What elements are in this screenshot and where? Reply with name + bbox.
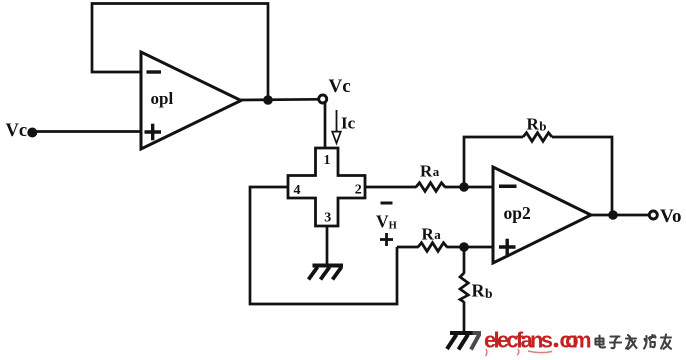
wire op1 feedback loop bbox=[92, 4, 268, 101]
watermark elecfans.com bbox=[484, 328, 592, 353]
svg-text:3: 3 bbox=[324, 211, 331, 226]
ground bottom right bbox=[450, 331, 473, 335]
wire pin3 to ground bbox=[326, 226, 329, 266]
svg-text:com: com bbox=[560, 328, 592, 353]
resistor Rb bottom (vertical) bbox=[460, 273, 468, 302]
svg-text:opl: opl bbox=[151, 89, 174, 108]
wire pin2 to Ra bbox=[365, 186, 417, 189]
svg-text:Vc: Vc bbox=[329, 76, 351, 97]
svg-text:Vc: Vc bbox=[6, 121, 28, 141]
resistor Ra top bbox=[416, 183, 445, 192]
wire Vc input to op1 + bbox=[32, 130, 141, 133]
watermark chinese: zi bbox=[610, 337, 621, 349]
svg-text:Vo: Vo bbox=[660, 206, 681, 227]
node junction plus row bbox=[459, 242, 469, 252]
watermark red swoosh bbox=[486, 349, 553, 356]
svg-text:Ra: Ra bbox=[422, 225, 442, 244]
wire Rb1 feedback loop bbox=[464, 137, 523, 187]
watermark chinese: shao bbox=[644, 335, 656, 349]
node Vo terminal bbox=[649, 211, 657, 219]
svg-text:Ra: Ra bbox=[420, 161, 440, 180]
svg-text:1: 1 bbox=[324, 153, 331, 168]
wire plus node down to Rb2 bbox=[463, 247, 466, 274]
node junction op1 output bbox=[263, 95, 273, 105]
ground under pin3 bbox=[313, 264, 344, 268]
svg-text:4: 4 bbox=[294, 183, 301, 198]
op-amp op2 bbox=[493, 167, 591, 263]
watermark chinese: fa bbox=[626, 335, 637, 349]
current arrow Ic bbox=[336, 110, 338, 132]
resistor Ra bottom bbox=[418, 243, 447, 252]
wire Ra2 to op2 plus input bbox=[447, 246, 494, 249]
node junction minus row bbox=[459, 182, 469, 192]
wire Ra to op2 minus input bbox=[445, 186, 494, 189]
watermark chinese: dian bbox=[596, 336, 606, 348]
svg-text:Ic: Ic bbox=[341, 114, 356, 133]
label VH with polarity bbox=[381, 202, 393, 205]
op-amp op1 bbox=[141, 52, 241, 149]
wire op2 output to Vo node bbox=[590, 214, 650, 217]
wire pin4 loop to plus row bbox=[250, 187, 397, 304]
wire Rb2 to ground bbox=[463, 302, 466, 334]
watermark chinese: you bbox=[661, 335, 671, 349]
resistor Rb top bbox=[523, 133, 552, 142]
wire Vc node down to hall pin1 bbox=[324, 103, 327, 150]
node Vc terminal bbox=[319, 95, 327, 103]
svg-text:2: 2 bbox=[355, 182, 362, 197]
node junction op2 output bbox=[608, 210, 618, 220]
node Vc input dot bbox=[27, 128, 37, 138]
hall element cross bbox=[288, 148, 365, 226]
wire op1 output to Vc node bbox=[240, 98, 319, 101]
wire plus row corner to Ra2 bbox=[397, 246, 419, 249]
svg-text:op2: op2 bbox=[504, 203, 531, 223]
